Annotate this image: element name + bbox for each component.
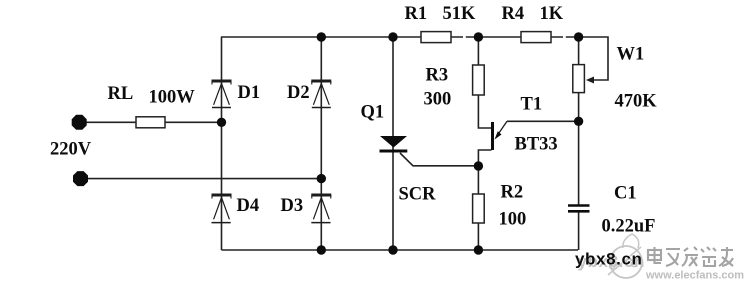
svg-text:T1: T1 [521, 95, 543, 115]
svg-text:ybx8.cn: ybx8.cn [575, 250, 643, 269]
svg-text:D3: D3 [281, 196, 304, 216]
svg-text:470K: 470K [615, 92, 658, 112]
svg-text:D1: D1 [238, 83, 261, 103]
svg-text:D2: D2 [287, 83, 310, 103]
svg-text:R1: R1 [405, 4, 428, 24]
svg-text:R2: R2 [501, 183, 524, 203]
svg-text:Q1: Q1 [361, 103, 385, 123]
svg-text:51K: 51K [443, 4, 477, 24]
svg-text:100W: 100W [149, 88, 196, 108]
svg-text:RL: RL [108, 84, 134, 104]
svg-text:BT33: BT33 [515, 135, 558, 155]
svg-text:D4: D4 [237, 196, 260, 216]
svg-text:www.elecfans.com: www.elecfans.com [645, 270, 744, 282]
svg-text:SCR: SCR [399, 185, 437, 205]
svg-text:1K: 1K [540, 4, 564, 24]
svg-text:C1: C1 [614, 184, 637, 204]
svg-text:100: 100 [499, 210, 527, 230]
svg-text:R4: R4 [502, 4, 525, 24]
svg-text:0.22uF: 0.22uF [602, 217, 656, 237]
svg-text:W1: W1 [617, 45, 645, 65]
svg-text:R3: R3 [426, 66, 449, 86]
svg-text:300: 300 [424, 90, 452, 110]
svg-text:220V: 220V [50, 140, 92, 160]
